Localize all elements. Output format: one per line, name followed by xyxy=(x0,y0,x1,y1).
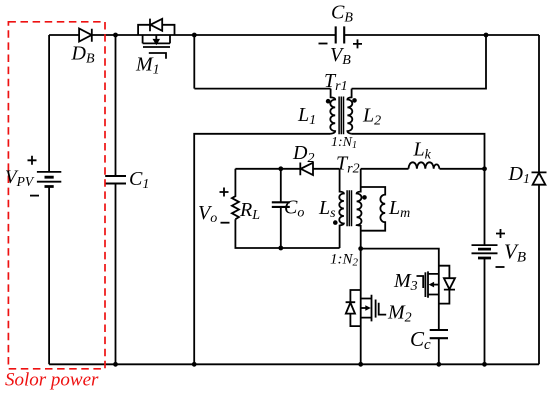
dot Tr1 L1 xyxy=(326,99,331,104)
diode D2 xyxy=(300,163,313,176)
diode D1 xyxy=(532,172,547,184)
mosfet M2 xyxy=(346,290,387,326)
wire Tr1 secondary top xyxy=(352,35,486,89)
wire Tr1 bottom xyxy=(194,134,330,364)
dot Tr2 Ls xyxy=(333,220,338,225)
wire output loop top xyxy=(235,168,339,170)
wire Tr1 secondary bottom xyxy=(352,134,485,364)
junction bottom rail VB branch xyxy=(482,362,487,367)
polarity plus VB top xyxy=(353,39,362,48)
wire output loop bottom xyxy=(235,219,339,248)
polarity plus VB right xyxy=(496,229,505,238)
wire bottom rail xyxy=(49,363,539,365)
battery VB right xyxy=(472,245,498,258)
transformer Tr1 core xyxy=(339,97,343,135)
capacitor Co xyxy=(280,169,282,248)
svg-text:Solor power: Solor power xyxy=(5,370,99,391)
wire PV branch xyxy=(48,35,50,364)
transformer Tr2 secondary winding xyxy=(357,169,362,249)
junction Tr2 secondary bottom / node 1:N2 xyxy=(358,246,363,251)
polarity minus VPV xyxy=(30,195,39,197)
wire M3 branch xyxy=(361,249,439,365)
wire Lk net xyxy=(361,168,485,170)
junction Lk / VB branch xyxy=(482,166,487,171)
resistor RL xyxy=(232,169,239,219)
polarity minus VB top xyxy=(319,43,328,45)
junction bottom rail left rail xyxy=(192,362,197,367)
transformer Tr1 winding L2 xyxy=(347,89,352,134)
polarity plus VPV xyxy=(28,156,37,165)
dot Tr1 L2 xyxy=(352,98,357,103)
transformer Tr2 core xyxy=(347,190,351,226)
red dashed solar box xyxy=(8,22,105,369)
transformer Tr2 winding Ls xyxy=(339,169,344,248)
wire Tr1 primary top xyxy=(194,88,330,90)
wire left rail upper xyxy=(193,35,195,89)
dot Tr2 secondary xyxy=(362,195,367,200)
junction C1 top xyxy=(113,33,118,38)
junction M1 drain / left rail top xyxy=(192,33,197,38)
wire top rail xyxy=(49,34,539,36)
polarity minus VB right xyxy=(496,266,505,268)
polarity plus Vo xyxy=(220,188,229,197)
transformer Tr1 winding L1 xyxy=(330,89,335,134)
junction bottom rail C1 xyxy=(113,362,118,367)
mosfet M1 xyxy=(138,19,174,59)
mosfet M3 xyxy=(417,266,456,304)
wire C1 branch xyxy=(115,35,117,364)
junction bottom rail M2 branch xyxy=(358,362,363,367)
junction Co top xyxy=(278,166,283,171)
junction bottom rail Cc branch xyxy=(436,362,441,367)
diode DB xyxy=(79,29,92,42)
wire right edge down xyxy=(538,35,540,364)
capacitor Cc xyxy=(430,330,448,338)
junction Co bottom xyxy=(278,246,283,251)
capacitor C1 xyxy=(105,176,126,184)
capacitor CB xyxy=(336,26,345,43)
inductor Lk xyxy=(409,162,440,168)
battery VPV xyxy=(37,172,61,187)
wire M2 branch xyxy=(360,249,362,365)
inductor Lm loop xyxy=(361,187,386,231)
junction top rail right xyxy=(484,33,489,38)
polarity minus Vo xyxy=(221,222,230,224)
